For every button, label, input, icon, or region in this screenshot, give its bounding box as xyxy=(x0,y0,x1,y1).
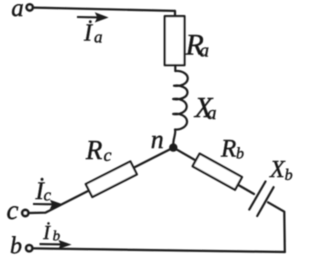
svg-text:X: X xyxy=(269,157,286,183)
inductor Xa xyxy=(173,65,188,144)
resistor Rc xyxy=(86,161,137,197)
svg-text:b: b xyxy=(285,167,293,184)
svg-text:İ: İ xyxy=(83,21,93,47)
svg-text:c: c xyxy=(44,186,52,205)
terminal a xyxy=(27,4,33,10)
svg-text:b: b xyxy=(236,146,244,163)
svg-text:İ: İ xyxy=(42,221,51,244)
svg-text:a: a xyxy=(94,27,103,46)
terminal b xyxy=(26,245,32,251)
wire n to capacitor xyxy=(173,148,254,194)
wire n to c xyxy=(30,148,173,213)
svg-text:c: c xyxy=(7,195,19,225)
svg-text:a: a xyxy=(207,103,217,124)
svg-text:n: n xyxy=(151,125,164,154)
current arrow Ic xyxy=(33,201,62,209)
svg-text:b: b xyxy=(10,234,22,258)
current arrow Ib xyxy=(40,241,71,248)
svg-text:a: a xyxy=(200,41,210,62)
resistor Ra xyxy=(165,16,185,65)
svg-text:c: c xyxy=(104,145,112,165)
capacitor Xb plate 2 xyxy=(257,187,273,216)
wire bottom b xyxy=(34,248,285,252)
wire capacitor to corner xyxy=(268,202,285,252)
resistor Rb xyxy=(193,154,242,190)
svg-text:b: b xyxy=(53,228,61,244)
node n xyxy=(169,143,177,151)
terminal c xyxy=(22,210,28,216)
svg-text:R: R xyxy=(220,136,236,163)
wire a to Ra xyxy=(34,8,175,17)
svg-text:R: R xyxy=(85,135,103,165)
svg-text:a: a xyxy=(11,0,23,22)
current arrow Ia xyxy=(77,13,107,21)
capacitor Xb plate 1 xyxy=(249,182,265,210)
